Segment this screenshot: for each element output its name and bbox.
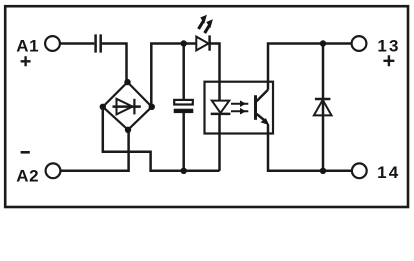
- svg-text:14: 14: [377, 163, 400, 182]
- svg-text:13: 13: [377, 36, 400, 55]
- svg-text:A2: A2: [16, 166, 39, 185]
- svg-text:A1: A1: [16, 37, 39, 56]
